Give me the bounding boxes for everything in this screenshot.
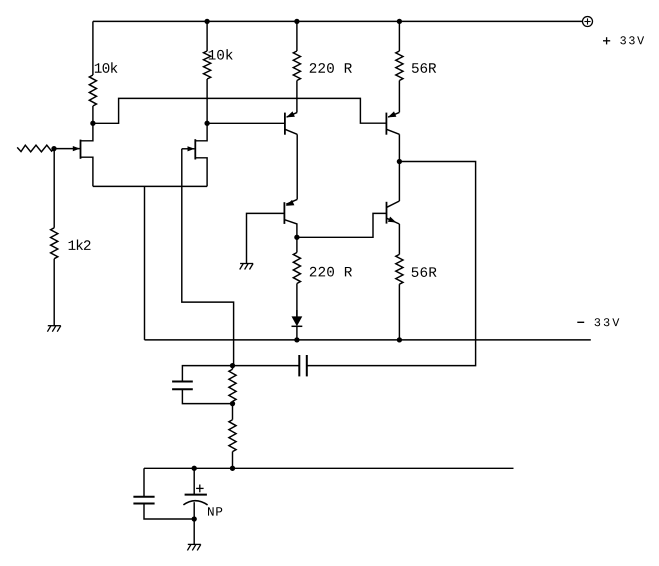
resistor R8a xyxy=(229,366,236,404)
junction dot node A xyxy=(230,363,235,368)
pnp Q5 xyxy=(247,199,298,263)
junction dot output node xyxy=(397,159,402,164)
wire drain2 to Q3 base xyxy=(207,122,285,124)
junction dot C4 top xyxy=(192,466,197,471)
resistor R1 10k xyxy=(89,21,96,123)
label R1 10k xyxy=(95,62,118,73)
junction dot rail/R3 xyxy=(294,19,299,24)
resistor R4 56R xyxy=(396,21,403,112)
pnp Q3 xyxy=(285,111,297,134)
jfet Q1 gate arrow xyxy=(73,146,80,151)
wire gate2 down to node A xyxy=(182,149,234,366)
resistor R2 10k xyxy=(204,21,211,123)
wire C4 to ground xyxy=(193,519,195,544)
label R7 56R xyxy=(412,267,437,277)
junction dot R8b bottom xyxy=(230,466,235,471)
junction dot input node xyxy=(51,146,56,151)
capacitor C4 NP xyxy=(183,468,207,519)
junction dot rail/R2 xyxy=(204,19,209,24)
junction dot R2/drain2 xyxy=(204,121,209,126)
resistor R8b xyxy=(229,404,236,469)
junction dot R7/-33V xyxy=(397,337,402,342)
diode D1 xyxy=(292,310,303,340)
capacitor C1 xyxy=(172,366,232,404)
label NP xyxy=(208,507,222,515)
jfet Q2 gate wire xyxy=(182,148,195,150)
label R5 1k2 xyxy=(69,240,91,250)
wire node A to C2 xyxy=(233,365,300,367)
power terminal +33V xyxy=(583,17,593,27)
jfet Q2 gate arrow xyxy=(188,146,195,151)
jfet Q1 gate wire xyxy=(54,148,80,150)
label R2 10k xyxy=(209,49,233,60)
junction dot Q5 collector node xyxy=(294,235,299,240)
wire tail to -33V xyxy=(144,186,146,340)
ground bottom xyxy=(187,544,200,550)
label - 33V xyxy=(577,318,619,326)
junction dot R1/drain1 xyxy=(90,121,95,126)
wire top rail +33V xyxy=(93,20,582,22)
resistor R7 56R xyxy=(396,224,403,340)
wire -33V rail xyxy=(145,339,591,341)
pnp Q4 xyxy=(386,111,399,134)
wire Q4 collector / Q6 collector column xyxy=(398,134,400,201)
npn Q6 xyxy=(387,201,400,224)
input source squiggle xyxy=(17,145,54,152)
wire drain1 feedback to Q4 base xyxy=(93,98,387,123)
jfet Q1 xyxy=(81,123,93,186)
wire source bus xyxy=(93,185,207,187)
ground below R5 xyxy=(47,326,60,332)
junction dot mid divider xyxy=(230,401,235,406)
junction dot diode/-33V xyxy=(294,337,299,342)
junction dot rail/R4 xyxy=(397,19,402,24)
jfet Q2 xyxy=(195,123,207,186)
label + 33V xyxy=(603,36,644,44)
resistor R5 1k2 xyxy=(51,149,58,326)
label R6 220 R xyxy=(310,267,352,277)
resistor R3 220R xyxy=(293,21,300,112)
label R4 56R xyxy=(412,63,436,73)
wire Q3 collector to Q5 emitter xyxy=(296,134,298,199)
ground at Q5 base xyxy=(240,264,253,270)
label R3 220 R xyxy=(310,63,352,73)
capacitor C3 xyxy=(133,468,194,519)
junction dot C4 bottom xyxy=(192,516,197,521)
wire bottom bus xyxy=(144,467,514,469)
capacitor C2 xyxy=(299,355,307,376)
wire Q5 collector to Q6 base xyxy=(297,213,387,237)
resistor R6 220R xyxy=(293,237,300,316)
wire output to C2 xyxy=(307,162,476,366)
